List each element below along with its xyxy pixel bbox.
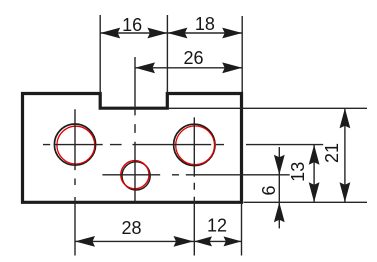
hole H3 small red circle [121, 161, 149, 189]
extension line bottom edge right [244, 201, 367, 203]
centerline vertical left hole [74, 109, 76, 255]
arrow 26 right [222, 62, 242, 73]
extension line right edge top [241, 16, 243, 92]
centerline horizontal through large holes [43, 144, 323, 146]
extension line notch bottom right [167, 107, 367, 109]
arrow 18 left [167, 28, 187, 39]
hole H1 left black circle [54, 124, 95, 165]
extension line right edge bottom [241, 203, 243, 255]
arrow 28 right [174, 236, 194, 247]
svg-text:12: 12 [207, 215, 227, 235]
arrow 21 top [340, 108, 351, 128]
arrow 16 right [147, 28, 167, 39]
hole H3 small black circle [122, 162, 150, 190]
arrow 6 top outside [274, 155, 285, 175]
dimension line 21 vertical [344, 108, 346, 202]
part outline [23, 94, 242, 203]
arrow 13 top [309, 145, 320, 165]
arrow 6 bottom outside [274, 202, 285, 222]
svg-text:28: 28 [121, 218, 141, 238]
svg-text:21: 21 [322, 143, 342, 163]
arrow 12 left [194, 236, 212, 246]
centerline vertical right hole [193, 117, 195, 255]
svg-text:13: 13 [288, 162, 308, 182]
arrow 12 right [224, 236, 242, 246]
dimension line 28 and 12 [75, 240, 242, 242]
extension line notch left [99, 15, 101, 94]
hole H2 right red circle [176, 126, 215, 165]
svg-text:26: 26 [183, 48, 203, 68]
arrow 21 bottom [340, 182, 351, 202]
arrow 16 left [100, 28, 120, 39]
dimension line 26 [135, 67, 242, 69]
dimension line 16 and 18 [100, 32, 242, 34]
arrows [75, 28, 350, 247]
dimension line 13 vertical [313, 145, 315, 203]
extension line notch right [166, 15, 168, 94]
arrow 26 left [135, 62, 155, 73]
dimension line 6 vertical [278, 147, 280, 228]
arrow 18 right [222, 28, 242, 39]
arrow 28 left [75, 236, 95, 247]
hole H1 left red circle [57, 126, 95, 164]
arrow 13 bottom [309, 182, 320, 202]
svg-text:6: 6 [259, 185, 279, 195]
svg-text:16: 16 [122, 15, 142, 35]
hole H2 right black circle [174, 124, 215, 165]
centerline horizontal through small hole [102, 174, 289, 176]
svg-text:18: 18 [195, 14, 215, 34]
centerline vertical small hole [134, 57, 136, 203]
